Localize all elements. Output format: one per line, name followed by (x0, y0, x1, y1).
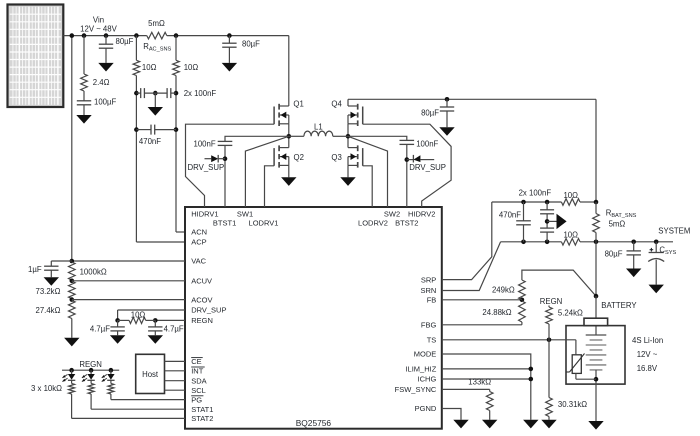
svg-text:RBAT_SNS: RBAT_SNS (606, 208, 637, 219)
svg-text:10Ω: 10Ω (131, 311, 146, 320)
svg-text:FSW_SYNC: FSW_SYNC (395, 385, 437, 394)
svg-text:10Ω: 10Ω (563, 191, 578, 200)
svg-text:Vin: Vin (93, 15, 104, 24)
svg-text:30.31kΩ: 30.31kΩ (558, 400, 587, 409)
svg-text:27.4kΩ: 27.4kΩ (36, 306, 61, 315)
svg-text:10Ω: 10Ω (563, 230, 578, 239)
svg-text:80µF: 80µF (421, 109, 439, 118)
svg-text:REGN: REGN (540, 297, 563, 306)
svg-text:LODRV1: LODRV1 (249, 218, 279, 227)
svg-text:REGN: REGN (191, 316, 213, 325)
svg-text:1000kΩ: 1000kΩ (80, 267, 107, 276)
svg-text:100nF: 100nF (416, 140, 438, 149)
svg-text:BATTERY: BATTERY (601, 301, 637, 310)
svg-text:CE: CE (191, 357, 201, 366)
svg-text:5mΩ: 5mΩ (148, 19, 165, 28)
svg-text:470nF: 470nF (139, 137, 161, 146)
svg-text:BTST1: BTST1 (213, 218, 236, 227)
svg-text:12V ~: 12V ~ (637, 350, 658, 359)
svg-text:DRV_SUP: DRV_SUP (191, 306, 226, 315)
svg-text:Q2: Q2 (294, 153, 304, 162)
svg-text:FBG: FBG (421, 321, 437, 330)
svg-text:ICHG: ICHG (418, 375, 437, 384)
svg-text:80µF: 80µF (242, 40, 260, 49)
svg-text:FB: FB (427, 296, 437, 305)
svg-text:5mΩ: 5mΩ (609, 220, 626, 229)
svg-text:BTST2: BTST2 (395, 218, 418, 227)
svg-text:L1: L1 (314, 123, 323, 132)
svg-text:16.8V: 16.8V (637, 364, 658, 373)
svg-text:Q4: Q4 (331, 99, 342, 108)
svg-text:ACP: ACP (191, 238, 206, 247)
svg-text:Q3: Q3 (331, 153, 341, 162)
svg-text:INT: INT (191, 367, 204, 376)
svg-text:4.7µF: 4.7µF (164, 325, 184, 334)
svg-text:TS: TS (427, 336, 437, 345)
svg-text:VAC: VAC (191, 257, 206, 266)
svg-text:ILIM_HIZ: ILIM_HIZ (405, 365, 436, 374)
svg-text:5.24kΩ: 5.24kΩ (558, 309, 583, 318)
svg-text:SYSTEM: SYSTEM (658, 226, 690, 235)
svg-text:10Ω: 10Ω (142, 63, 157, 72)
svg-text:SRP: SRP (421, 275, 436, 284)
svg-text:2x 100nF: 2x 100nF (184, 89, 217, 98)
svg-text:REGN: REGN (79, 360, 102, 369)
svg-text:133kΩ: 133kΩ (468, 377, 491, 386)
svg-text:LODRV2: LODRV2 (358, 218, 388, 227)
svg-text:470nF: 470nF (499, 210, 521, 219)
svg-text:Q1: Q1 (293, 99, 303, 108)
svg-text:BQ25756: BQ25756 (296, 418, 332, 428)
svg-text:4S Li-Ion: 4S Li-Ion (632, 336, 663, 345)
svg-text:DRV_SUP: DRV_SUP (409, 163, 446, 172)
svg-text:SRN: SRN (420, 286, 436, 295)
svg-text:12V ~ 48V: 12V ~ 48V (80, 24, 117, 33)
svg-text:ACN: ACN (191, 228, 207, 237)
svg-text:1µF: 1µF (28, 265, 42, 274)
svg-text:PGND: PGND (415, 404, 437, 413)
svg-text:MODE: MODE (414, 350, 437, 359)
svg-text:DRV_SUP: DRV_SUP (188, 163, 225, 172)
svg-text:100nF: 100nF (194, 140, 216, 149)
svg-text:ACOV: ACOV (191, 295, 212, 304)
svg-text:STAT2: STAT2 (191, 414, 213, 423)
svg-text:SDA: SDA (191, 376, 206, 385)
svg-text:2x 100nF: 2x 100nF (519, 188, 552, 197)
svg-text:3 x 10kΩ: 3 x 10kΩ (31, 384, 62, 393)
svg-text:73.2kΩ: 73.2kΩ (36, 287, 61, 296)
svg-text:4.7µF: 4.7µF (90, 325, 110, 334)
svg-text:CSYS: CSYS (659, 246, 676, 257)
svg-text:Host: Host (142, 370, 159, 379)
svg-text:10Ω: 10Ω (184, 63, 199, 72)
svg-text:24.88kΩ: 24.88kΩ (482, 308, 511, 317)
svg-text:80µF: 80µF (116, 37, 134, 46)
svg-text:80µF: 80µF (605, 249, 623, 258)
svg-text:STAT1: STAT1 (191, 405, 213, 414)
svg-text:249kΩ: 249kΩ (492, 285, 515, 294)
svg-text:PG: PG (191, 395, 202, 404)
svg-text:SCL: SCL (191, 386, 206, 395)
svg-text:2.4Ω: 2.4Ω (93, 78, 110, 87)
svg-text:RAC_SNS: RAC_SNS (143, 42, 171, 53)
svg-text:100µF: 100µF (94, 98, 117, 107)
svg-text:ACUV: ACUV (191, 277, 212, 286)
